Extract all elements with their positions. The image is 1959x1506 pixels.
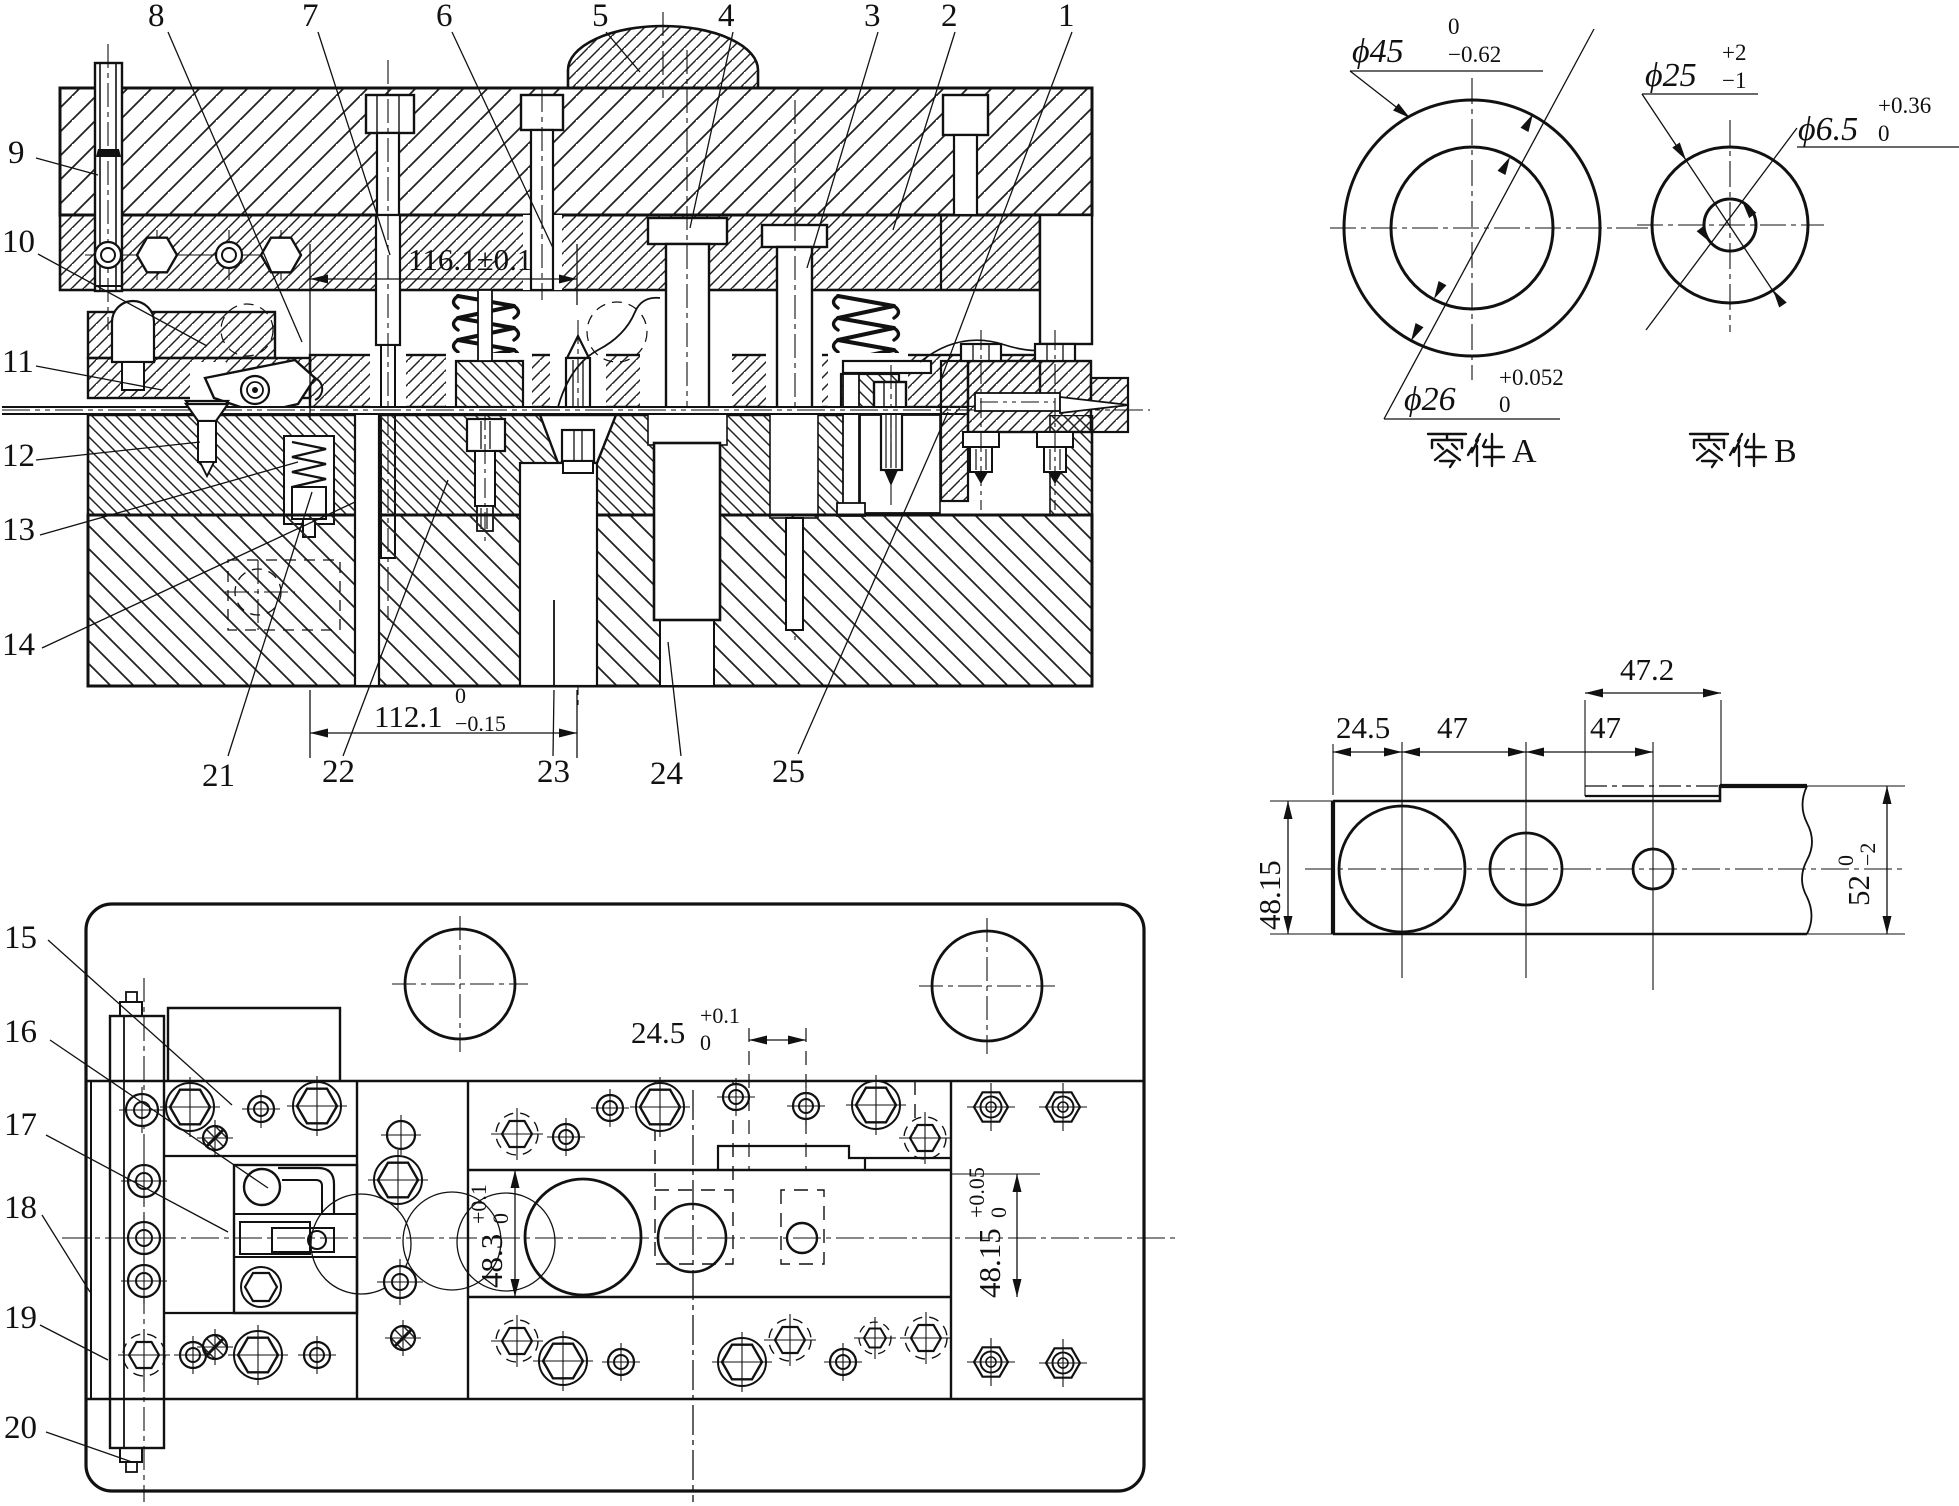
label part B (hand-drawn CJK): [1690, 434, 1766, 467]
die plate: [88, 415, 1092, 515]
lifter pin: [112, 301, 154, 362]
svg-text:3: 3: [864, 0, 881, 34]
svg-text:47: 47: [1590, 710, 1621, 745]
phi6.5 leader: [1646, 128, 1797, 330]
svg-text:24.5: 24.5: [1336, 710, 1390, 745]
dim 48.3: [514, 1170, 516, 1297]
bent clamp: [278, 1168, 334, 1214]
svg-text:48.15: 48.15: [1252, 860, 1287, 930]
svg-text:15: 15: [4, 920, 37, 956]
svg-text:+0.36: +0.36: [1878, 93, 1931, 118]
channel joints: [164, 1155, 357, 1157]
die shank 5: [568, 26, 758, 88]
center die pocket: [540, 415, 616, 463]
svg-text:9: 9: [8, 135, 25, 171]
spring B guide rod: [843, 374, 859, 507]
fasteners top row: [119, 1087, 165, 1133]
svg-text:10: 10: [2, 224, 35, 260]
lower die holder (die base): [88, 515, 1092, 686]
small spring 13: [292, 442, 326, 487]
vertical centerline through die hole: [692, 1090, 694, 1502]
horizontal plate joints: [86, 1080, 1144, 1083]
main horizontal centerline: [62, 1237, 1180, 1239]
svg-text:+0.1: +0.1: [700, 1003, 740, 1028]
svg-text:−1: −1: [1722, 68, 1746, 93]
punch 7 rod: [376, 215, 400, 345]
material strip: [2, 407, 1100, 415]
punch 4 (T-head + body): [648, 218, 727, 244]
svg-text:16: 16: [4, 1014, 37, 1050]
leaders top: [168, 32, 1072, 382]
die base holes: [355, 413, 379, 686]
guide post hole right: [932, 931, 1042, 1041]
svg-text:24.5: 24.5: [631, 1015, 685, 1050]
part A inner circle: [1391, 147, 1553, 309]
feed bolts: [961, 330, 1075, 510]
svg-text:20: 20: [4, 1410, 37, 1446]
phi26 diameter line: [1384, 29, 1594, 419]
spring B: [834, 296, 899, 372]
svg-text:0: 0: [1878, 121, 1890, 146]
svg-text:116.1±0.1: 116.1±0.1: [408, 242, 532, 277]
svg-text:11: 11: [2, 344, 34, 380]
svg-text:B: B: [1774, 433, 1797, 470]
svg-text:22: 22: [322, 754, 355, 790]
dim 47 (1): [1402, 751, 1526, 753]
left lifter block: [88, 312, 275, 358]
hole 3: [1633, 849, 1673, 889]
slotted screw 22: [467, 419, 505, 451]
dim 48.15 left: [1287, 801, 1289, 934]
part B outer circle: [1652, 147, 1808, 303]
svg-text:0: 0: [488, 1213, 513, 1224]
upper die plate (top plate): [60, 88, 1092, 215]
svg-text:24: 24: [650, 756, 683, 792]
fasteners bottom row: [118, 1329, 170, 1381]
svg-text:17: 17: [4, 1107, 37, 1143]
lower die plan outline: [86, 904, 1144, 1491]
strip outline: [1333, 786, 1807, 801]
die plate holes (white): [284, 436, 334, 524]
notch edge: [1585, 795, 1720, 797]
screw right top: [943, 95, 988, 135]
dim 48.15: [1016, 1174, 1018, 1297]
phantom part circles: [311, 1194, 411, 1294]
svg-text:47.2: 47.2: [1620, 652, 1674, 687]
svg-text:+2: +2: [1722, 40, 1746, 65]
guide pin 9 (sleeve + pin): [95, 63, 122, 291]
spring A: [454, 296, 519, 372]
stripper bolt 6: [521, 95, 563, 130]
svg-text:1: 1: [1058, 0, 1075, 34]
centerlines A: [1330, 227, 1616, 229]
svg-text:0: 0: [986, 1207, 1011, 1218]
hole 1: [1339, 806, 1465, 932]
top-left block: [168, 1008, 340, 1081]
label part A (hand-drawn CJK): [1428, 434, 1504, 467]
phi25 label: [1642, 93, 1758, 95]
screw 25: [874, 382, 906, 408]
svg-text:5: 5: [592, 0, 609, 34]
side cutter block: [234, 1165, 357, 1313]
upper holder plate: [60, 215, 1040, 290]
dashed strip phantom: [655, 1081, 733, 1264]
spring B washer and boss: [843, 361, 931, 373]
break (wavy) edge: [1802, 786, 1812, 934]
punch 3: [762, 225, 827, 247]
svg-text:ϕ6.5: ϕ6.5: [1798, 111, 1858, 148]
phi25 diameter line: [1642, 94, 1779, 300]
dim 24.5: [1333, 751, 1402, 753]
svg-text:13: 13: [2, 512, 35, 548]
svg-text:25: 25: [772, 754, 805, 790]
lever (finger stop): [205, 360, 315, 413]
svg-text:−0.62: −0.62: [1448, 42, 1501, 67]
centerlines B: [1637, 224, 1824, 226]
hex socket head: [137, 238, 177, 273]
svg-text:48.3: 48.3: [474, 1234, 509, 1288]
guide rail left: [110, 1016, 164, 1448]
die opening large: [525, 1179, 641, 1295]
holder plate joint line: [940, 215, 942, 290]
svg-text:ϕ45: ϕ45: [1352, 33, 1404, 70]
screw of punch 7: [366, 95, 414, 133]
svg-text:12: 12: [2, 438, 35, 474]
hole 2: [1490, 833, 1562, 905]
svg-text:47: 47: [1437, 710, 1468, 745]
dim 47.2: [1585, 692, 1721, 694]
svg-text:0: 0: [455, 683, 466, 708]
dim 24.5: [749, 1039, 806, 1041]
svg-text:ϕ26: ϕ26: [1404, 381, 1456, 418]
strip tongue through feed: [1060, 397, 1129, 413]
step profile in top band: [718, 1146, 951, 1170]
svg-text:4: 4: [718, 0, 735, 34]
countersunk screw 12 (redrawn above): [186, 404, 228, 421]
ball: [244, 1169, 280, 1205]
center pilot screw 23: [567, 336, 589, 358]
svg-text:−0.15: −0.15: [455, 711, 506, 736]
svg-text:A: A: [1512, 433, 1537, 470]
dim 47 (2): [1526, 751, 1653, 753]
svg-text:8: 8: [148, 0, 165, 34]
socket screw in holder: [95, 242, 121, 268]
guide bushing right: [1040, 215, 1092, 344]
hex in cutter block: [245, 1273, 277, 1301]
die opening mid: [658, 1204, 726, 1272]
svg-text:2: 2: [941, 0, 958, 34]
phantom circle: [221, 304, 273, 356]
svg-text:21: 21: [202, 758, 235, 794]
svg-text:48.15: 48.15: [972, 1228, 1007, 1298]
dim 52 right: [1886, 786, 1888, 934]
svg-text:7: 7: [302, 0, 319, 34]
svg-text:23: 23: [537, 754, 570, 790]
feed device right (part 1): [941, 361, 968, 501]
svg-text:6: 6: [436, 0, 453, 34]
phi26 label: [1384, 418, 1560, 420]
svg-text:18: 18: [4, 1190, 37, 1226]
leaders 15-20: [40, 940, 268, 1462]
svg-text:0: 0: [1499, 392, 1511, 417]
die opening small: [787, 1223, 817, 1253]
phi45 label: [1350, 70, 1543, 72]
svg-text:14: 14: [2, 627, 35, 663]
svg-text:0: 0: [1448, 14, 1460, 39]
part B inner circle: [1704, 199, 1756, 251]
svg-text:112.1: 112.1: [374, 699, 443, 734]
svg-text:−2: −2: [1855, 843, 1880, 866]
dimension 112.1: [310, 690, 577, 758]
centerlines: [1305, 868, 1905, 870]
partial section break curves: [558, 298, 660, 407]
svg-text:+0.052: +0.052: [1499, 365, 1564, 390]
svg-text:19: 19: [4, 1300, 37, 1336]
spring A boss: [456, 361, 523, 407]
svg-text:ϕ25: ϕ25: [1645, 57, 1697, 94]
stripper plate: [310, 355, 1040, 407]
vertical plate joints: [90, 1081, 92, 1399]
svg-text:0: 0: [700, 1030, 711, 1055]
dashed slot bottom-left: [228, 560, 340, 630]
part A outer circle: [1344, 100, 1600, 356]
leaders left: [36, 158, 355, 648]
dimension 116.1: [310, 244, 577, 420]
guide post hole left: [405, 929, 515, 1039]
die insert 24: [654, 443, 720, 620]
fasteners mid: [121, 1158, 167, 1204]
leaders bottom: [228, 412, 948, 756]
countersunk screw 12: [186, 401, 228, 418]
svg-text:52: 52: [1841, 875, 1876, 906]
